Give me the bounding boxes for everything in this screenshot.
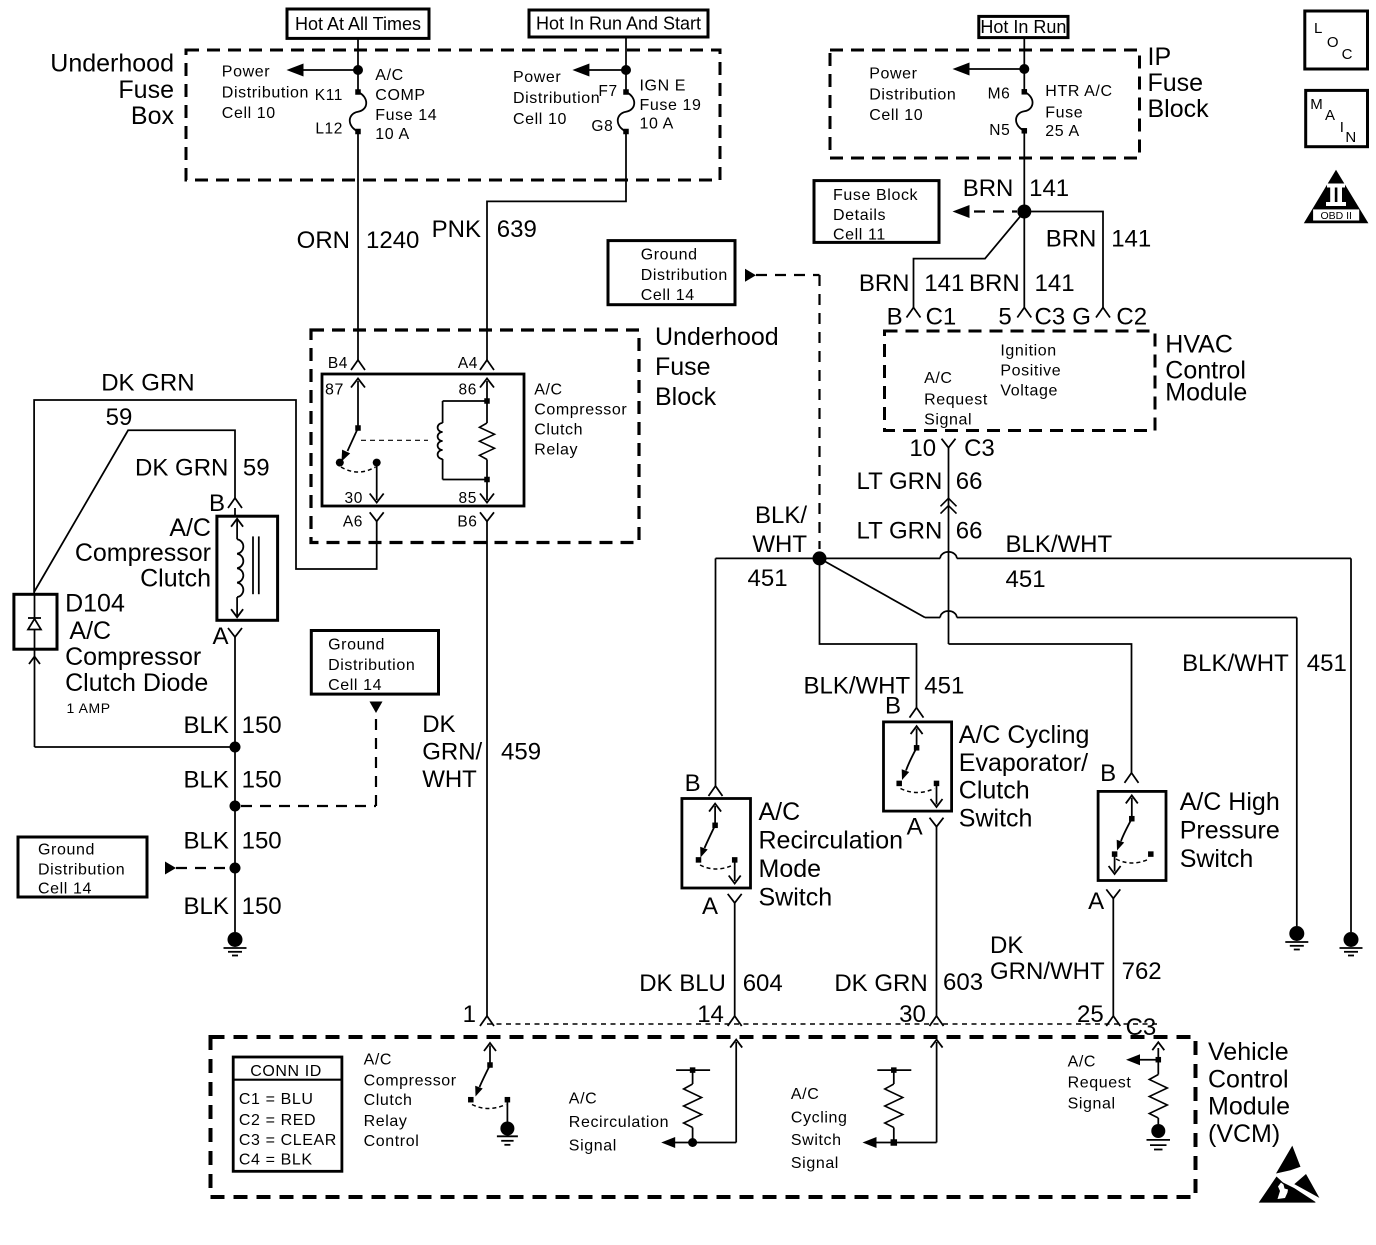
cycling switch contact right xyxy=(934,781,940,787)
wire junction to HTR fuse xyxy=(1023,69,1025,92)
svg-text:Cell 14: Cell 14 xyxy=(641,287,695,304)
svg-text:DK: DK xyxy=(990,932,1023,959)
label BLK/ WHT 451 (at splice) xyxy=(748,502,808,592)
IP fuse block dashed outline xyxy=(830,50,1140,158)
svg-text:10 A: 10 A xyxy=(375,126,409,143)
svg-text:Distribution: Distribution xyxy=(641,267,728,284)
fuse HTR A/C 25A xyxy=(1022,89,1028,95)
high pressure switch contact right xyxy=(1148,851,1154,857)
svg-text:B6: B6 xyxy=(457,514,477,531)
relay node 85 junction xyxy=(484,477,490,483)
label BLK 150 (3) xyxy=(184,828,282,855)
svg-text:141: 141 xyxy=(1029,175,1069,202)
wire from Hot In Run And Start to junction xyxy=(625,37,627,70)
svg-text:PNK: PNK xyxy=(432,216,481,243)
svg-text:85: 85 xyxy=(459,490,477,507)
svg-text:A/C: A/C xyxy=(791,1086,819,1103)
cycling switch arm xyxy=(902,748,917,780)
svg-text:Cell 14: Cell 14 xyxy=(38,881,92,898)
svg-text:Distribution: Distribution xyxy=(38,862,125,879)
wire DK BLU 604 xyxy=(734,920,736,1016)
svg-text:A: A xyxy=(212,623,228,650)
high pressure switch dashed arc xyxy=(1116,859,1149,863)
svg-text:WHT: WHT xyxy=(752,531,807,558)
wire DK GRN 59 from relay A6 xyxy=(34,400,377,594)
svg-text:Relay: Relay xyxy=(534,442,578,459)
relay label A/C Compressor Clutch Relay xyxy=(534,382,627,459)
svg-text:Switch: Switch xyxy=(959,805,1033,833)
svg-text:IGN E: IGN E xyxy=(640,78,687,95)
svg-text:DK: DK xyxy=(422,711,455,738)
wire BLK/WHT second horizontal to right ground xyxy=(925,611,1297,926)
svg-text:G: G xyxy=(1072,303,1091,330)
relay node 86 junction xyxy=(484,398,490,404)
svg-text:BRN: BRN xyxy=(1046,225,1097,252)
node Ground Distribution Cell 14 (upper) xyxy=(608,241,756,305)
clutch coil symbol xyxy=(231,519,243,618)
svg-text:D104: D104 xyxy=(65,590,125,618)
arrow to Power Distribution Cell 10 xyxy=(287,64,359,77)
svg-text:Compressor: Compressor xyxy=(65,643,201,671)
label Power Distribution Cell 10 (IGN) xyxy=(513,69,600,128)
svg-text:Vehicle: Vehicle xyxy=(1208,1038,1289,1066)
splice of BLK/WHT 451 xyxy=(813,551,827,565)
node Hot At All Times xyxy=(287,9,429,38)
label BLK 150 (4) xyxy=(184,893,282,920)
pin B C1 connector xyxy=(887,303,957,330)
CONN ID table xyxy=(233,1057,342,1171)
svg-text:N5: N5 xyxy=(989,122,1010,139)
pin 5 C3 connector xyxy=(998,303,1065,330)
svg-text:Relay: Relay xyxy=(364,1113,408,1130)
svg-text:Power: Power xyxy=(222,63,270,80)
node Hot In Run And Start xyxy=(529,10,708,37)
VCM relay-control dashed arc xyxy=(472,1105,506,1109)
high pressure switch pivot xyxy=(1129,816,1135,822)
svg-text:150: 150 xyxy=(242,828,282,855)
relay contact right xyxy=(373,459,381,467)
relay resistor xyxy=(480,401,495,480)
svg-text:Cell 11: Cell 11 xyxy=(833,227,886,244)
wire BLK/WHT 451 main horizontal xyxy=(716,552,1352,558)
svg-text:A/C: A/C xyxy=(364,1052,392,1069)
svg-text:IP: IP xyxy=(1148,43,1172,71)
ground G2 (far right) xyxy=(1344,932,1359,947)
VCM cycling signal arrow xyxy=(863,1040,943,1148)
arrow to Power Distribution Cell 10 (IP) xyxy=(953,63,1025,76)
svg-text:Distribution: Distribution xyxy=(328,657,415,674)
svg-text:Ground: Ground xyxy=(38,842,95,859)
ground G100 xyxy=(228,932,243,947)
splice S of BRN 141 xyxy=(1017,205,1031,219)
svg-text:451: 451 xyxy=(748,565,788,592)
svg-text:BRN: BRN xyxy=(963,175,1014,202)
label A/C Request Signal (VCM) xyxy=(1068,1054,1132,1113)
pin 25 C3 connector of VCM xyxy=(1077,1001,1156,1041)
cycling switch pivot xyxy=(914,745,920,751)
wire DK GRN 59 branch to clutch B xyxy=(34,430,235,592)
pin A connector cycling switch xyxy=(907,814,944,841)
VCM cycling sense resistor R2 xyxy=(877,1067,911,1142)
recirculation switch output arrow xyxy=(729,860,741,884)
svg-text:1240: 1240 xyxy=(366,227,419,254)
label BLK/WHT 451 (right) xyxy=(1182,650,1347,677)
label HTR A/C Fuse 25 A xyxy=(1045,83,1112,140)
svg-text:Distribution: Distribution xyxy=(869,86,956,103)
svg-text:150: 150 xyxy=(242,712,282,739)
cycling switch contact arrow up xyxy=(911,726,923,748)
svg-text:LT GRN: LT GRN xyxy=(857,517,943,544)
svg-text:Details: Details xyxy=(833,207,886,224)
svg-text:451: 451 xyxy=(1307,650,1347,677)
svg-text:150: 150 xyxy=(242,767,282,794)
svg-text:A: A xyxy=(1088,888,1104,915)
cycling switch output arrow xyxy=(931,783,943,807)
svg-text:Block: Block xyxy=(1148,95,1210,123)
wire DK GRN/WHT 459 relay B6 to VCM pin 1 xyxy=(486,528,488,1016)
svg-text:Ground: Ground xyxy=(641,247,698,264)
svg-text:Compressor: Compressor xyxy=(75,539,211,567)
svg-text:GRN/WHT: GRN/WHT xyxy=(990,958,1105,985)
VCM relay-control switch arm xyxy=(475,1065,490,1097)
relay pin 86 arrow xyxy=(459,379,494,402)
legend OBD II icon xyxy=(1304,170,1369,224)
svg-text:C2 = RED: C2 = RED xyxy=(239,1112,316,1129)
label BRN 141 (center branch) xyxy=(969,270,1075,297)
label Power Distribution Cell 10 (IP) xyxy=(869,65,956,124)
svg-text:66: 66 xyxy=(956,517,983,544)
wire DK GRN/WHT 762 xyxy=(1112,915,1114,1016)
wire BLK 150 from clutch A to ground xyxy=(234,649,236,932)
relay contact left xyxy=(336,459,344,467)
svg-text:Underhood: Underhood xyxy=(655,323,779,351)
wire LT GRN to A/C high pressure switch B xyxy=(949,644,1132,773)
wire from Hot At All Times to junction xyxy=(357,38,359,70)
svg-text:Distribution: Distribution xyxy=(513,90,600,107)
svg-text:A/C: A/C xyxy=(534,382,562,399)
svg-text:Block: Block xyxy=(655,383,717,411)
pin A4 connector xyxy=(458,355,494,372)
svg-text:Ground: Ground xyxy=(328,637,385,654)
label A/C Request Signal (HVAC) xyxy=(924,370,988,428)
vehicle control module label xyxy=(1208,1038,1290,1148)
svg-text:66: 66 xyxy=(956,468,983,495)
label A/C COMP Fuse 14 10 A xyxy=(375,67,437,143)
off-page connector on LT GRN xyxy=(941,498,957,513)
svg-text:BRN: BRN xyxy=(969,270,1020,297)
label A/C Cycling Switch Signal xyxy=(791,1086,848,1172)
svg-text:C3: C3 xyxy=(1035,303,1066,330)
svg-text:C3: C3 xyxy=(964,435,995,462)
legend MAIN icon xyxy=(1306,90,1368,146)
VCM internal ground G3 xyxy=(497,1122,518,1145)
svg-text:OBD II: OBD II xyxy=(1320,210,1352,222)
svg-text:Signal: Signal xyxy=(791,1155,839,1172)
wire BLK/WHT main to far right ground xyxy=(1350,558,1352,932)
pin B connector high pressure switch xyxy=(1100,760,1138,787)
svg-text:BLK/: BLK/ xyxy=(755,502,807,529)
svg-text:Module: Module xyxy=(1165,379,1247,407)
node Fuse Block Details Cell 11 xyxy=(814,181,939,244)
relay K1 A/C compressor clutch relay box xyxy=(322,374,524,506)
pin A connector of clutch xyxy=(212,623,242,650)
svg-text:Switch: Switch xyxy=(1180,845,1254,873)
label BRN 141 (left branch) xyxy=(859,270,965,297)
pin 1 connector of VCM xyxy=(463,1001,494,1028)
node Hot In Run xyxy=(979,16,1068,37)
svg-text:BLK: BLK xyxy=(184,767,229,794)
svg-text:Clutch: Clutch xyxy=(959,777,1030,805)
VCM relay-control contact right xyxy=(505,1097,511,1103)
svg-text:Power: Power xyxy=(869,65,917,82)
svg-text:Clutch Diode: Clutch Diode xyxy=(65,669,208,697)
svg-text:A: A xyxy=(1325,107,1336,124)
svg-text:C: C xyxy=(1342,46,1353,63)
label IGN E Fuse 19 10 A xyxy=(640,78,702,133)
pin 30 connector of VCM xyxy=(899,1001,943,1028)
node Ground Distribution Cell 14 (left) xyxy=(18,837,147,898)
wire junction to fuse F19 xyxy=(625,70,627,92)
svg-text:Fuse: Fuse xyxy=(118,76,174,104)
underhood fuse box label xyxy=(50,50,174,130)
label DK GRN 603 xyxy=(834,969,983,997)
svg-text:762: 762 xyxy=(1122,958,1162,985)
svg-text:O: O xyxy=(1327,34,1339,51)
svg-text:WHT: WHT xyxy=(422,766,477,793)
svg-text:CONN ID: CONN ID xyxy=(250,1063,322,1080)
svg-text:Fuse 19: Fuse 19 xyxy=(640,97,702,114)
VCM cycling signal node xyxy=(891,1139,898,1146)
wire junction to fuse F14 xyxy=(357,70,359,92)
label DK GRN/WHT 762 xyxy=(990,932,1162,985)
A/C cycling evaporator/clutch switch SW2 box xyxy=(884,722,952,811)
svg-text:Switch: Switch xyxy=(791,1132,842,1149)
label Power Distribution Cell 10 xyxy=(222,63,309,122)
svg-text:Pressure: Pressure xyxy=(1180,817,1280,845)
svg-text:N: N xyxy=(1345,129,1356,146)
dashed reference from Ground Distribution Cell 14 to splice xyxy=(756,275,820,549)
pin G C2 connector xyxy=(1072,303,1147,330)
svg-text:30: 30 xyxy=(899,1001,926,1028)
svg-text:DK GRN: DK GRN xyxy=(834,970,927,997)
high pressure switch contact left xyxy=(1112,851,1118,857)
svg-text:BLK: BLK xyxy=(184,893,229,920)
diode D104 box xyxy=(14,594,57,649)
svg-text:ORN: ORN xyxy=(297,227,350,254)
label D104 A/C Compressor Clutch Diode 1 AMP xyxy=(65,590,208,716)
dashed arrow from splice to Fuse Block Details xyxy=(953,205,1018,218)
HVAC control module label xyxy=(1165,331,1247,407)
svg-text:Fuse Block: Fuse Block xyxy=(833,187,919,204)
relay switch pivot xyxy=(355,425,361,431)
svg-text:Fuse 14: Fuse 14 xyxy=(375,107,437,124)
underhood fuse block dashed outline xyxy=(311,330,639,543)
svg-text:Power: Power xyxy=(513,69,561,86)
wire PNK 639 fuse to relay A4 xyxy=(487,132,626,361)
svg-text:603: 603 xyxy=(943,969,983,996)
high pressure switch contact arrow up xyxy=(1126,795,1138,818)
splice S4 xyxy=(230,863,241,874)
arrow to Power Distribution Cell 10 (IGN) xyxy=(572,64,626,77)
svg-text:DK GRN: DK GRN xyxy=(101,369,194,396)
svg-text:Evaporator/: Evaporator/ xyxy=(959,749,1088,777)
vehicle control module dashed outline xyxy=(211,1037,1196,1197)
svg-text:B: B xyxy=(885,693,901,720)
relay pin 87 arrow xyxy=(325,379,365,428)
svg-text:Clutch: Clutch xyxy=(534,422,583,439)
pin B6 connector xyxy=(457,512,494,530)
wire DK GRN 603 xyxy=(936,840,938,1016)
junction at HTR A/C fuse feed xyxy=(1019,64,1029,74)
VCM recirculation sense resistor R1 xyxy=(676,1067,710,1142)
svg-text:DK BLU: DK BLU xyxy=(639,970,726,997)
svg-text:Hot In Run: Hot In Run xyxy=(980,17,1066,37)
svg-text:459: 459 xyxy=(501,739,541,766)
label DK GRN 59 (lower) xyxy=(135,455,270,482)
underhood fuse box dashed outline xyxy=(186,50,720,180)
wire BLK/WHT splice to cycling switch B xyxy=(820,558,917,707)
svg-text:Fuse: Fuse xyxy=(1148,69,1204,97)
svg-text:A6: A6 xyxy=(343,514,363,531)
dashed reference to Ground Distribution Cell 14 (middle) xyxy=(241,702,383,807)
wire LT GRN 66 xyxy=(948,459,950,644)
svg-text:Cell 10: Cell 10 xyxy=(869,107,923,124)
svg-text:30: 30 xyxy=(345,490,363,507)
svg-text:DK GRN: DK GRN xyxy=(135,455,228,482)
svg-text:M: M xyxy=(1310,96,1323,113)
VCM relay-control ground wire xyxy=(506,1100,508,1123)
svg-text:B: B xyxy=(1100,760,1116,787)
VCM relay-control switch arrow xyxy=(484,1043,496,1065)
VCM request signal arrow xyxy=(1126,1042,1164,1065)
svg-text:A/C: A/C xyxy=(569,1090,597,1107)
svg-text:Clutch: Clutch xyxy=(140,565,211,593)
relay pin 30 arrow xyxy=(345,463,384,507)
svg-text:Cell 10: Cell 10 xyxy=(222,105,276,122)
junction at fuse 19 feed xyxy=(621,65,631,75)
pin B4 connector xyxy=(328,355,365,372)
svg-text:Distribution: Distribution xyxy=(222,84,309,101)
relay contact dashed arc xyxy=(341,467,376,472)
svg-text:Module: Module xyxy=(1208,1093,1290,1121)
relay pin 85 arrow xyxy=(459,480,494,508)
label A/C High Pressure Switch xyxy=(1180,788,1280,873)
junction at fuse 14 feed xyxy=(353,65,363,75)
high pressure switch arm xyxy=(1117,819,1132,851)
svg-text:Voltage: Voltage xyxy=(1000,382,1058,399)
label A/C Compressor Clutch Relay Control xyxy=(364,1052,457,1150)
svg-text:A/C: A/C xyxy=(924,370,952,387)
HVAC control module dashed outline xyxy=(885,331,1156,431)
svg-text:Signal: Signal xyxy=(924,411,972,428)
svg-text:Clutch: Clutch xyxy=(364,1092,413,1109)
svg-text:C2: C2 xyxy=(1116,303,1147,330)
svg-text:A/C Cycling: A/C Cycling xyxy=(959,721,1090,749)
label BLK/WHT (main) xyxy=(1006,531,1113,593)
fuse F19 IGN E 10A xyxy=(623,89,629,95)
svg-text:Ignition: Ignition xyxy=(1000,343,1056,360)
svg-text:L12: L12 xyxy=(315,121,343,138)
label ORN 1240 xyxy=(297,227,420,254)
svg-text:451: 451 xyxy=(924,673,964,700)
pin B connector recirculation switch xyxy=(685,770,723,797)
svg-text:C1 = BLU: C1 = BLU xyxy=(239,1091,314,1108)
high pressure switch output arrow xyxy=(1109,854,1121,874)
svg-text:Recirculation: Recirculation xyxy=(759,827,904,855)
wire BRN 141 splice to HVAC pin G C2 xyxy=(1024,212,1103,308)
svg-text:HTR A/C: HTR A/C xyxy=(1045,83,1112,100)
svg-text:L: L xyxy=(1314,20,1323,37)
svg-text:A/C: A/C xyxy=(69,617,111,645)
svg-text:A: A xyxy=(702,893,718,920)
svg-text:Recirculation: Recirculation xyxy=(569,1114,669,1131)
svg-text:A/C High: A/C High xyxy=(1180,788,1280,816)
svg-text:639: 639 xyxy=(497,216,537,243)
svg-text:Cell 14: Cell 14 xyxy=(328,677,382,694)
VCM recirculation signal node xyxy=(688,1138,697,1147)
splice S3 xyxy=(230,801,241,812)
svg-text:451: 451 xyxy=(1006,566,1046,593)
svg-text:A/C: A/C xyxy=(169,514,211,542)
svg-text:Cycling: Cycling xyxy=(791,1109,848,1126)
svg-text:Signal: Signal xyxy=(1068,1096,1116,1113)
svg-text:Fuse: Fuse xyxy=(1045,104,1083,121)
svg-text:1 AMP: 1 AMP xyxy=(67,700,111,716)
svg-text:B: B xyxy=(685,770,701,797)
svg-text:BLK: BLK xyxy=(184,828,229,855)
svg-text:BLK: BLK xyxy=(184,712,229,739)
svg-text:5: 5 xyxy=(998,303,1011,330)
svg-text:B4: B4 xyxy=(328,355,348,372)
svg-text:Cell 10: Cell 10 xyxy=(513,111,567,128)
pin A connector recirculation switch xyxy=(702,893,742,920)
VCM relay-control switch pivot xyxy=(487,1062,493,1068)
svg-text:I: I xyxy=(1340,119,1345,136)
svg-text:A/C: A/C xyxy=(1068,1054,1096,1071)
svg-text:BRN: BRN xyxy=(859,270,910,297)
svg-text:25 A: 25 A xyxy=(1045,123,1079,140)
svg-text:BLK/WHT: BLK/WHT xyxy=(1006,531,1113,558)
recirculation switch arm xyxy=(700,825,715,857)
svg-text:GRN/: GRN/ xyxy=(422,739,482,766)
diode D104 symbol xyxy=(28,594,41,649)
relay mechanical link dashed xyxy=(361,439,428,441)
svg-text:604: 604 xyxy=(743,970,783,997)
svg-text:Hot At All Times: Hot At All Times xyxy=(295,14,421,34)
splice S2 xyxy=(230,742,241,753)
wire BLK/WHT to recirculation switch B xyxy=(715,558,717,786)
cycling switch contact left xyxy=(896,781,902,787)
fuse F14 A/C COMP 10A xyxy=(355,89,361,95)
pin A6 connector xyxy=(343,512,384,530)
recirculation switch contact right xyxy=(732,857,738,863)
pin B connector cycling switch xyxy=(885,693,924,720)
svg-text:141: 141 xyxy=(1035,270,1075,297)
recirculation switch contact arrow up xyxy=(709,804,721,826)
VCM recirculation signal arrow xyxy=(661,1040,742,1148)
label A/C Recirculation Mode Switch xyxy=(759,798,904,912)
legend LOC icon xyxy=(1305,11,1368,69)
wire BRN 141 splice to HVAC pin B C1 xyxy=(914,212,1025,308)
VCM request pull resistor R3 xyxy=(1149,1060,1167,1124)
svg-text:A/C: A/C xyxy=(759,798,801,826)
label BRN 141 (right branch) xyxy=(1046,225,1152,252)
svg-text:C4 = BLK: C4 = BLK xyxy=(239,1152,313,1169)
A/C high pressure switch SW3 box xyxy=(1098,791,1166,880)
cycling switch dashed arc xyxy=(901,789,935,793)
svg-text:Control: Control xyxy=(364,1133,420,1150)
svg-text:F7: F7 xyxy=(598,83,617,100)
